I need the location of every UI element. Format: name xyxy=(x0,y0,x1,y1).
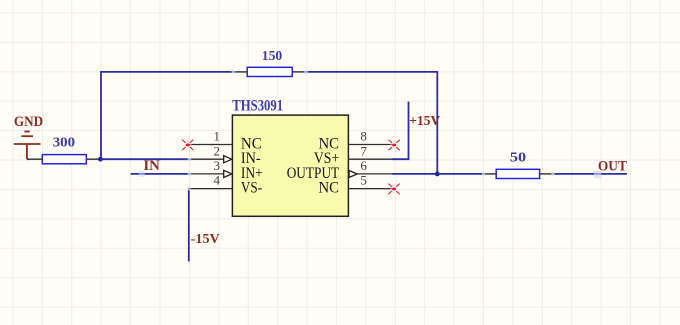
power port GND xyxy=(14,132,41,160)
no-connect marker pin 8 xyxy=(389,140,400,150)
wire feedback top right segment xyxy=(306,71,437,73)
svg-text:5: 5 xyxy=(360,173,367,188)
wire node A to pin 2 xyxy=(100,158,189,160)
no-connect marker pin 1 xyxy=(182,140,193,150)
pin 7 (VS+) xyxy=(348,158,392,160)
junction A (feedback / input node) xyxy=(98,157,103,162)
svg-text:OUT: OUT xyxy=(598,159,627,175)
wire end marks resistor 50 xyxy=(482,172,555,176)
wire end marks pins 2,3,4 xyxy=(187,157,191,190)
pin 4 (VS-) xyxy=(189,188,233,190)
svg-text:3: 3 xyxy=(214,158,221,173)
svg-text:7: 7 xyxy=(360,143,367,158)
svg-text:150: 150 xyxy=(262,49,283,64)
pin 1 (NC) xyxy=(188,144,232,146)
resistor 50 xyxy=(484,169,554,178)
wire end marks resistor 150 xyxy=(232,70,308,74)
svg-text:8: 8 xyxy=(360,129,367,144)
svg-text:1: 1 xyxy=(214,129,221,144)
op-amp U1 THS3091 body xyxy=(232,115,348,216)
svg-text:IN: IN xyxy=(143,158,160,174)
resistor 150 xyxy=(234,67,307,76)
svg-text:4: 4 xyxy=(214,173,221,188)
wire resistor 50 to OUT xyxy=(553,173,627,175)
svg-text:+15V: +15V xyxy=(409,114,440,129)
wire feedback left vertical xyxy=(100,71,102,159)
wire pin 6 to output node xyxy=(392,173,437,175)
junction B (output node) xyxy=(435,172,440,177)
wire feedback top horizontal xyxy=(101,71,234,73)
pin 5 (NC) xyxy=(348,188,392,190)
svg-text:2: 2 xyxy=(214,143,221,158)
svg-text:-15V: -15V xyxy=(191,232,220,247)
svg-text:THS3091: THS3091 xyxy=(232,97,283,114)
no-connect marker pin 5 xyxy=(389,184,400,194)
pin 3 (IN+) xyxy=(188,170,232,177)
net label attach mark IN xyxy=(139,171,145,177)
net label attach mark OUT xyxy=(594,171,602,179)
svg-text:50: 50 xyxy=(510,150,526,165)
svg-text:GND: GND xyxy=(14,114,43,130)
wire IN to pin 3 xyxy=(131,173,190,175)
pin 2 (IN-) xyxy=(188,156,232,163)
resistor 300 xyxy=(29,155,101,164)
wire pin 4 to -15V stub xyxy=(188,189,190,262)
wire GND to resistor 300 xyxy=(27,158,29,160)
svg-text:300: 300 xyxy=(53,136,75,151)
wire feedback right vertical xyxy=(436,71,438,174)
wire output node to resistor 50 xyxy=(437,173,483,175)
svg-text:6: 6 xyxy=(360,158,367,173)
pin 8 (NC) xyxy=(348,144,392,146)
svg-text:NC: NC xyxy=(319,180,340,197)
pin 6 (OUTPUT) xyxy=(349,171,392,178)
wire pin 7 to +15V stub xyxy=(392,102,409,160)
svg-text:VS-: VS- xyxy=(241,180,262,197)
